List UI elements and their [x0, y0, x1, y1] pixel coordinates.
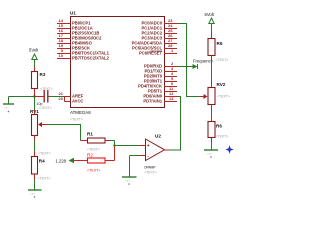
wire PC0/ADC0 to RV2 wiper	[177, 24, 204, 97]
wire junction to capacitor	[35, 96, 44, 98]
node junction to op-amp +	[113, 144, 115, 146]
wire op-amp output up to PD6/AIN0	[165, 97, 181, 151]
Frequency terminal arrow	[193, 64, 198, 69]
resistor R3	[32, 72, 38, 89]
svg-text:U2: U2	[155, 134, 161, 139]
svg-text:<T>: <T>	[4, 106, 10, 110]
wire junction to op-amp plus input	[115, 145, 146, 147]
R1 right lead	[105, 140, 115, 142]
svg-text:R2: R2	[87, 153, 93, 158]
svg-text:<T>: <T>	[207, 152, 213, 156]
cursor marker (blue diamond)	[225, 145, 233, 153]
svg-text:<TEXT>: <TEXT>	[38, 177, 51, 181]
resistor R6	[208, 122, 215, 138]
svg-text:PB7/TOSC2/XTAL2: PB7/TOSC2/XTAL2	[72, 56, 110, 61]
wire R1-R2 junction vertical	[114, 141, 116, 161]
svg-text:U1: U1	[70, 11, 76, 16]
terminal arrow (points left)	[69, 158, 74, 163]
left pin stubs PB0-PB7	[57, 24, 71, 59]
svg-text:13: 13	[169, 96, 174, 101]
wire terminal to R2	[74, 160, 88, 162]
wire ground to R3 junction	[9, 96, 35, 98]
ground (below R4)	[28, 190, 42, 198]
wire RV1 to R4	[34, 136, 36, 157]
pin AREF stub	[63, 96, 71, 98]
resistor R1	[81, 138, 106, 143]
power terminal arrow right	[209, 18, 214, 31]
svg-text:ATMEGA8: ATMEGA8	[70, 110, 91, 115]
AREF/AVCC pin numbers	[59, 91, 64, 101]
wire ground to op-amp minus input	[130, 155, 146, 157]
R5 top lead	[211, 31, 213, 39]
ground (op-amp minus input)	[122, 156, 137, 185]
chip U1 body	[71, 17, 165, 108]
svg-text:<TEXT>: <TEXT>	[70, 118, 83, 122]
right pin names PD port	[138, 64, 163, 104]
svg-text:R4: R4	[39, 159, 45, 164]
svg-text:5Volt: 5Volt	[29, 48, 39, 53]
AREF/AVCC pin names	[72, 94, 84, 104]
wire PD0/RXD to Frequency terminal	[177, 66, 193, 68]
svg-text:<T>: <T>	[125, 179, 131, 183]
ground (left of R3 junction)	[3, 97, 14, 113]
left pin numbers	[59, 18, 64, 58]
wire capacitor to AREF/AVCC	[49, 96, 64, 98]
svg-text:R6: R6	[216, 124, 222, 129]
svg-text:RV2: RV2	[217, 82, 226, 87]
resistor R5	[208, 39, 215, 56]
svg-text:Frequency: Frequency	[193, 59, 214, 64]
svg-text:1.228: 1.228	[56, 159, 67, 164]
svg-text:5Volt: 5Volt	[205, 12, 215, 17]
right pin numbers PC	[168, 18, 174, 53]
right pin numbers PD	[169, 61, 174, 101]
svg-text:<T>: <T>	[30, 192, 36, 196]
svg-text:<TEXT>: <TEXT>	[87, 148, 100, 152]
right pin stubs PD port	[164, 67, 177, 102]
svg-text:<TEXT>: <TEXT>	[217, 95, 230, 99]
svg-text:PD7/AIN1: PD7/AIN1	[143, 99, 162, 104]
svg-text:<TEXT>: <TEXT>	[40, 87, 53, 91]
svg-text:OPAMP: OPAMP	[144, 166, 156, 170]
ground (below R6)	[204, 150, 218, 158]
svg-text:<TEXT>: <TEXT>	[144, 171, 157, 175]
wire R5 to RV2	[211, 56, 213, 88]
potentiometer RV2	[204, 88, 216, 105]
svg-text:R5: R5	[217, 41, 223, 46]
RV1 wiper wire to R1	[42, 125, 81, 141]
resistor R4	[32, 157, 38, 175]
capacitor C1	[44, 90, 48, 103]
R2 right lead	[105, 160, 115, 162]
svg-text:PC6/RESET: PC6/RESET	[139, 51, 162, 56]
potentiometer RV1	[32, 97, 43, 136]
R3 bottom lead	[34, 89, 36, 97]
R6 bottom lead	[211, 138, 213, 151]
svg-text:<TEXT>: <TEXT>	[216, 135, 229, 139]
svg-text:+: +	[147, 143, 150, 149]
power terminal arrow left	[32, 54, 37, 67]
R4 bottom lead	[34, 174, 36, 190]
svg-text:10: 10	[59, 53, 64, 58]
wire RV2 to R6	[211, 105, 213, 122]
svg-text:R3: R3	[40, 72, 46, 77]
node junction R3/RV1	[33, 95, 35, 97]
left pin names PB port	[72, 21, 110, 61]
resistor R2 (highlighted)	[88, 158, 106, 163]
svg-text:AVCC: AVCC	[72, 99, 83, 104]
right pin names PC port	[132, 21, 163, 56]
overline over RESET of PC6	[151, 50, 163, 52]
svg-text:<TEXT>: <TEXT>	[39, 106, 52, 110]
svg-text:<TEXT>: <TEXT>	[87, 169, 100, 173]
right pin stubs PC port	[164, 24, 177, 54]
op-amp U2	[146, 139, 165, 161]
svg-text:<TEXT>: <TEXT>	[38, 152, 51, 156]
R3 top lead	[34, 67, 36, 72]
pin AVCC stub	[65, 96, 71, 102]
svg-text:R1: R1	[87, 132, 93, 137]
svg-text:<TEXT>: <TEXT>	[216, 58, 229, 62]
